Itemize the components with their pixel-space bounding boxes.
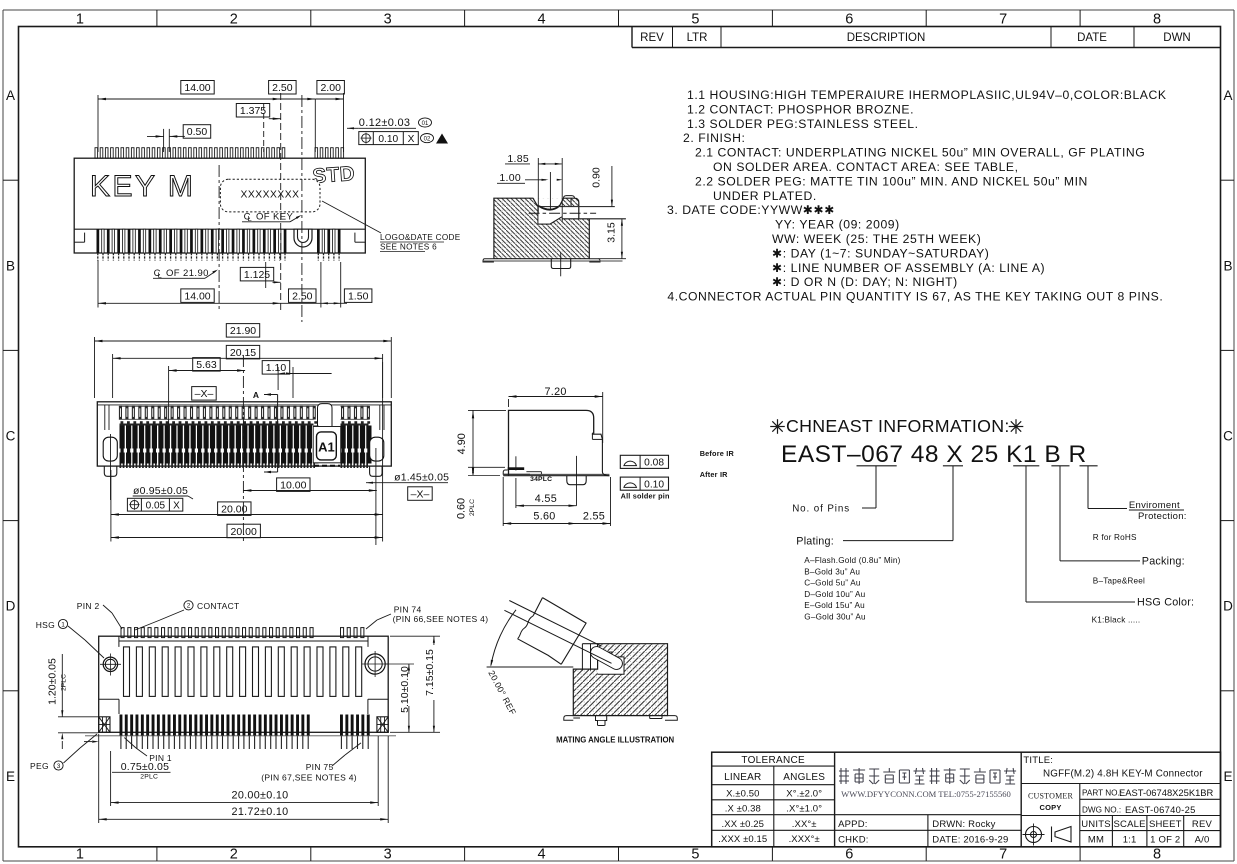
svg-text:1.85: 1.85	[507, 153, 529, 165]
illustration center peg	[596, 716, 607, 726]
34PLC ledge	[526, 471, 541, 473]
svg-text:D–Gold 10u” Au: D–Gold 10u” Au	[804, 590, 865, 599]
svg-text:XXXXXXXX: XXXXXXXX	[241, 189, 300, 200]
svg-text:0.90: 0.90	[591, 167, 603, 188]
svg-text:A: A	[1223, 88, 1232, 103]
svg-text:OF 21.90: OF 21.90	[166, 268, 209, 279]
svg-text:MATING ANGLE ILLUSTRATION: MATING ANGLE ILLUSTRATION	[556, 735, 674, 744]
svg-text:YY: YEAR (09: 2009): YY: YEAR (09: 2009)	[775, 218, 900, 232]
svg-text:0.08: 0.08	[644, 458, 664, 469]
peg blocks hatched	[99, 717, 110, 733]
svg-text:4.90: 4.90	[456, 433, 468, 454]
svg-text:1.10: 1.10	[266, 362, 287, 374]
svg-text:A1: A1	[318, 440, 335, 455]
svg-text:PEG: PEG	[30, 761, 49, 771]
svg-text:PIN 2: PIN 2	[77, 601, 100, 611]
svg-text:R for RoHS: R for RoHS	[1093, 533, 1137, 542]
svg-text:NGFF(M.2) 4.8H KEY-M Connec: NGFF(M.2) 4.8H KEY-M Connector	[1043, 769, 1203, 780]
svg-text:6: 6	[845, 11, 853, 27]
svg-text:4.CONNECTOR ACTUAL PIN QUAN: 4.CONNECTOR ACTUAL PIN QUANTITY IS 67, A…	[667, 290, 1163, 304]
illustration slot walls	[581, 644, 583, 671]
svg-text:02: 02	[424, 137, 431, 143]
svg-text:PIN 74: PIN 74	[394, 605, 422, 615]
svg-text:A: A	[253, 390, 259, 400]
svg-text:LTR: LTR	[687, 32, 708, 44]
-X- datum right	[408, 487, 433, 501]
dim 14.00 top	[97, 95, 99, 152]
svg-text:X.±0.50: X.±0.50	[726, 788, 759, 799]
illustration module body	[543, 598, 587, 665]
illustration pocket white	[598, 652, 624, 674]
svg-text:EAST-06740-25: EAST-06740-25	[1125, 804, 1196, 815]
dim 1.10	[277, 367, 279, 390]
bottom view lower pins	[120, 715, 123, 737]
bottom view body	[99, 636, 389, 732]
dim 2.00 top	[343, 93, 345, 152]
revision table header	[631, 27, 633, 48]
svg-text:CHNEAST INFORMATION:: CHNEAST INFORMATION:	[786, 416, 1010, 436]
svg-text:.XX ±0.25: .XX ±0.25	[722, 819, 765, 830]
svg-text:2PLC: 2PLC	[140, 774, 158, 781]
key tab in pin row	[318, 404, 333, 427]
svg-text:DATE: 2016-9-29: DATE: 2016-9-29	[932, 835, 1008, 846]
svg-text:0.10: 0.10	[644, 479, 664, 490]
svg-text:2.00: 2.00	[320, 82, 341, 94]
dim 0.75	[98, 734, 100, 789]
dim 21.90	[94, 337, 96, 398]
svg-text:C: C	[1223, 429, 1233, 444]
projection symbols	[1026, 827, 1042, 843]
svg-text:.XXX ±0.15: .XXX ±0.15	[718, 834, 767, 845]
svg-text:B: B	[1223, 258, 1232, 273]
svg-text:10.00: 10.00	[280, 479, 306, 491]
svg-text:LINEAR: LINEAR	[724, 772, 761, 783]
dim 20.00+-0.10	[110, 789, 112, 806]
leader environment	[1087, 466, 1089, 509]
part number heading	[770, 426, 785, 428]
illustration card pcb lines	[504, 610, 611, 663]
svg-text:5.60: 5.60	[533, 511, 555, 523]
svg-text:DESCRIPTION: DESCRIPTION	[847, 32, 926, 44]
svg-text:20.15: 20.15	[230, 347, 256, 359]
front view corner notches	[84, 233, 86, 243]
svg-text:ø0.95±0.05: ø0.95±0.05	[133, 485, 188, 497]
leader HSG color	[1025, 466, 1027, 602]
svg-text:0.05: 0.05	[146, 501, 166, 512]
svg-text:D: D	[6, 599, 16, 614]
svg-text:X: X	[173, 501, 180, 512]
svg-text:7: 7	[999, 11, 1007, 27]
feature control frame 0.10 X	[359, 132, 419, 145]
svg-text:20.00±0.10: 20.00±0.10	[232, 790, 289, 802]
svg-text:0.60: 0.60	[455, 498, 467, 519]
svg-text:1: 1	[76, 847, 84, 863]
long thin line	[85, 735, 396, 737]
svg-text:WWW.DFYYCONN.COM TEL:0755-2715: WWW.DFYYCONN.COM TEL:0755-27155560	[841, 789, 1011, 799]
svg-text:E: E	[6, 769, 15, 784]
svg-text:DATE: DATE	[1077, 32, 1107, 44]
svg-text:APPD:: APPD:	[838, 819, 868, 830]
section centerline	[529, 212, 597, 214]
svg-text:HSG: HSG	[36, 620, 55, 630]
svg-text:COPY: COPY	[1039, 803, 1061, 812]
svg-text:2.1 CONTACT: UNDERPLATING N: 2.1 CONTACT: UNDERPLATING NICKEL 50u” MI…	[695, 146, 1145, 160]
zone labels	[156, 10, 158, 27]
svg-text:3: 3	[384, 847, 392, 863]
svg-text:Enviroment: Enviroment	[1129, 500, 1180, 511]
svg-text:1.125: 1.125	[244, 269, 270, 281]
svg-text:0.50: 0.50	[187, 126, 208, 138]
left hole	[103, 657, 117, 671]
svg-text:1.375: 1.375	[240, 105, 266, 117]
svg-text:DRWN: Rocky: DRWN: Rocky	[932, 819, 995, 830]
svg-text:0.10: 0.10	[378, 134, 398, 145]
svg-text:K1:Black .....: K1:Black .....	[1092, 616, 1141, 625]
company name hanzi	[839, 768, 849, 784]
svg-text:MM: MM	[1088, 835, 1104, 846]
svg-text:DWG NO.:: DWG NO.:	[1082, 806, 1121, 815]
svg-text:PIN 75: PIN 75	[306, 762, 334, 772]
mounting slots	[103, 437, 117, 461]
illustration card tip	[597, 653, 617, 664]
contact element in tab	[570, 199, 572, 207]
svg-text:LOGO&DATE CODE: LOGO&DATE CODE	[380, 233, 461, 242]
svg-text:SHEET: SHEET	[1149, 819, 1182, 830]
svg-text:.XXX°±: .XXX°±	[789, 834, 820, 845]
front view top pin row	[95, 148, 98, 159]
notch cut white	[533, 198, 564, 209]
svg-text:3: 3	[57, 763, 61, 770]
svg-text:ON SOLDER AREA. CONTACT AR: ON SOLDER AREA. CONTACT AREA: SEE TABLE,	[713, 160, 1019, 174]
section view hatched body	[494, 198, 589, 259]
svg-text:TITLE:: TITLE:	[1023, 755, 1053, 766]
svg-text:Before IR: Before IR	[700, 449, 735, 458]
svg-text:4.55: 4.55	[535, 493, 557, 505]
centerline X datum	[242, 355, 244, 542]
svg-text:2.50: 2.50	[292, 290, 313, 302]
svg-text:E–Gold 15u” Au: E–Gold 15u” Au	[804, 601, 865, 610]
top view pin rails	[119, 405, 314, 407]
svg-text:SEE NOTES 6: SEE NOTES 6	[380, 243, 437, 252]
svg-text:✱: LINE NUMBER OF ASSEMBLY: ✱: LINE NUMBER OF ASSEMBLY (A: LINE A)	[772, 261, 1045, 275]
svg-text:After IR: After IR	[700, 470, 728, 479]
svg-text:SCALE: SCALE	[1114, 819, 1146, 830]
svg-text:A–Flash.Gold (0.8u” Min): A–Flash.Gold (0.8u” Min)	[804, 556, 900, 565]
top view contact band	[120, 424, 314, 426]
svg-text:Protection:: Protection:	[1138, 511, 1187, 522]
dim 20.00 lower	[110, 519, 112, 542]
solder pin spec boxes	[620, 455, 668, 468]
svg-text:2. FINISH:: 2. FINISH:	[683, 131, 745, 145]
top view pin row upper	[119, 406, 122, 420]
logo&date leader	[322, 201, 381, 233]
dim 14.00 bottom	[97, 260, 99, 308]
svg-text:CUSTOMER: CUSTOMER	[1028, 792, 1073, 801]
svg-text:EAST–067 48 X 25 K1 B R: EAST–067 48 X 25 K1 B R	[781, 441, 1087, 468]
dim 20.15	[112, 354, 114, 398]
svg-text:CONTACT: CONTACT	[197, 601, 240, 611]
svg-text:3: 3	[384, 11, 392, 27]
right hole	[365, 654, 385, 674]
svg-text:B–Gold 3u” Au: B–Gold 3u” Au	[804, 567, 860, 576]
svg-text:All solder pin: All solder pin	[621, 491, 670, 500]
svg-text:1.20±0.05: 1.20±0.05	[47, 658, 59, 705]
svg-text:D: D	[1223, 599, 1233, 614]
side view center peg	[567, 476, 586, 485]
dim 5.63	[168, 366, 170, 430]
feature frame 0.05 X	[127, 498, 182, 511]
svg-text:B: B	[6, 258, 15, 273]
svg-text:Plating:: Plating:	[796, 536, 834, 548]
svg-text:✱: D OR N (D: DAY; N: N: ✱: D OR N (D: DAY; N: NIGHT)	[772, 275, 958, 289]
svg-text:C–Gold 5u” Au: C–Gold 5u” Au	[804, 579, 861, 588]
side view outline	[509, 410, 594, 475]
svg-text:8: 8	[1153, 847, 1161, 863]
svg-text:8: 8	[1153, 11, 1161, 27]
svg-text:5.63: 5.63	[196, 359, 217, 371]
side view left solder foot	[508, 467, 525, 470]
svg-text:B–Tape&Reel: B–Tape&Reel	[1093, 577, 1145, 586]
svg-text:2PLC: 2PLC	[60, 674, 67, 691]
svg-text:X: X	[408, 134, 415, 145]
svg-text:6: 6	[845, 847, 853, 863]
svg-text:1.1 HOUSING:HIGH TEMPERAIURE: 1.1 HOUSING:HIGH TEMPERAIURE IHERMOPLASI…	[687, 88, 1167, 102]
svg-text:1.3 SOLDER PEG:STAINLESS ST: 1.3 SOLDER PEG:STAINLESS STEEL.	[687, 117, 919, 131]
front view housing body KEY M	[74, 158, 365, 253]
dim 1.125	[265, 262, 267, 288]
svg-text:C: C	[6, 429, 16, 444]
bottom view shoulder	[99, 698, 119, 700]
dim 2.50 top	[314, 99, 316, 152]
svg-text:✱: DAY (1~7: SUNDAY~SATURDA: ✱: DAY (1~7: SUNDAY~SATURDAY)	[772, 246, 989, 260]
top view feet below	[104, 466, 117, 476]
svg-text:21.72±0.10: 21.72±0.10	[232, 806, 289, 818]
svg-text:.X°±1.0°: .X°±1.0°	[786, 804, 822, 815]
svg-text:ANGLES: ANGLES	[783, 772, 825, 783]
dim 10.00	[243, 490, 376, 492]
svg-text:4: 4	[538, 847, 546, 863]
svg-text:E: E	[1223, 769, 1232, 784]
svg-text:5: 5	[691, 11, 699, 27]
svg-text:1: 1	[61, 621, 65, 628]
svg-text:No. of Pins: No. of Pins	[792, 504, 850, 515]
border frame	[3, 9, 1234, 11]
top view body	[97, 402, 391, 466]
svg-text:2PLC: 2PLC	[469, 499, 476, 516]
svg-text:1 OF 2: 1 OF 2	[1150, 835, 1180, 846]
front view bottom solder legs	[97, 229, 100, 253]
svg-text:1.50: 1.50	[348, 290, 369, 302]
svg-text:5: 5	[691, 847, 699, 863]
dim 1.375	[263, 104, 265, 152]
svg-text:01: 01	[422, 121, 429, 127]
hole centerlines	[110, 434, 112, 500]
svg-text:CHKD:: CHKD:	[838, 835, 869, 846]
svg-text:1.2 CONTACT: PHOSPHOR BROZN: 1.2 CONTACT: PHOSPHOR BROZNE.	[687, 102, 914, 116]
svg-text:1.00: 1.00	[499, 172, 521, 184]
svg-text:2.55: 2.55	[583, 511, 605, 523]
svg-text:14.00: 14.00	[184, 82, 210, 94]
bottom view top pins	[121, 628, 124, 638]
svg-text:UNITS: UNITS	[1081, 819, 1111, 830]
illustration angle arc	[491, 610, 516, 666]
dim 20.00 upper	[110, 470, 112, 519]
label contact	[184, 601, 193, 610]
svg-text:1:1: 1:1	[1123, 835, 1137, 846]
svg-text:KEY M: KEY M	[90, 170, 195, 203]
dim 2.55	[610, 477, 612, 526]
underlines	[857, 465, 897, 467]
svg-text:REV: REV	[1192, 819, 1213, 830]
illustration horizontal ref line	[487, 666, 574, 668]
leader no of pins	[875, 466, 877, 508]
svg-text:34PLC: 34PLC	[530, 476, 552, 483]
svg-text:14.00: 14.00	[184, 290, 210, 302]
svg-text:20.00: 20.00	[221, 503, 247, 515]
svg-text:–X–: –X–	[195, 388, 214, 400]
svg-text:–X–: –X–	[411, 488, 430, 500]
svg-text:Packing:: Packing:	[1142, 556, 1185, 568]
dim 2.50 bottom	[320, 262, 322, 308]
svg-text:2: 2	[187, 603, 191, 610]
svg-text:TOLERANCE: TOLERANCE	[741, 755, 805, 766]
dim 1.50 bottom	[340, 262, 342, 308]
svg-text:DWN: DWN	[1163, 32, 1190, 44]
svg-text:2: 2	[230, 847, 238, 863]
slot lines	[538, 206, 615, 208]
svg-text:1: 1	[76, 11, 84, 27]
svg-text:2.50: 2.50	[272, 82, 293, 94]
slot cut white	[538, 207, 615, 225]
svg-text:.XX°±: .XX°±	[792, 819, 817, 830]
illustration socket block hatched	[573, 644, 667, 716]
illustration feet	[564, 716, 574, 721]
dim 21.72+-0.10	[98, 789, 100, 823]
title block frame	[712, 752, 1221, 847]
svg-text:.X ±0.38: .X ±0.38	[725, 804, 761, 815]
dim 5.60	[502, 477, 504, 526]
svg-text:0.75±0.05: 0.75±0.05	[121, 761, 169, 773]
leader packing	[1059, 466, 1061, 561]
leader plating	[952, 466, 954, 541]
svg-text:WW: WEEK (25: THE 25TH WE: WW: WEEK (25: THE 25TH WEEK)	[772, 232, 981, 246]
section line A-A	[277, 395, 279, 473]
section bottom peg	[551, 259, 570, 269]
svg-text:REV: REV	[640, 32, 664, 44]
svg-text:OF KEY: OF KEY	[256, 212, 294, 223]
svg-text:3.15: 3.15	[606, 222, 618, 243]
dim 0.50	[163, 129, 165, 152]
bottom view comb fingers	[119, 640, 368, 642]
svg-text:X°.±2.0°: X°.±2.0°	[786, 788, 822, 799]
notch contact arc	[539, 206, 559, 210]
svg-text:ø1.45±0.05: ø1.45±0.05	[394, 472, 449, 484]
dashed logo box	[220, 179, 320, 212]
svg-text:7.15±0.15: 7.15±0.15	[424, 649, 436, 696]
svg-text:0.12±0.03: 0.12±0.03	[359, 117, 411, 129]
svg-text:PART NO.:: PART NO.:	[1082, 789, 1122, 798]
svg-text:HSG Color:: HSG Color:	[1137, 597, 1194, 609]
svg-text:4: 4	[538, 11, 546, 27]
side view bottom line	[503, 475, 609, 477]
svg-text:7: 7	[999, 847, 1007, 863]
dim 4.55	[515, 478, 517, 508]
svg-text:(PIN 67,SEE NOTES 4): (PIN 67,SEE NOTES 4)	[261, 773, 357, 783]
svg-text:21.90: 21.90	[230, 325, 256, 337]
svg-text:UNDER PLATED.: UNDER PLATED.	[713, 189, 817, 203]
-X- datum left	[192, 387, 217, 401]
svg-text:3. DATE CODE:YYWW✱✱✱: 3. DATE CODE:YYWW✱✱✱	[667, 203, 835, 217]
svg-text:EAST-06748X25K1BR: EAST-06748X25K1BR	[1119, 787, 1214, 798]
svg-text:20.00: 20.00	[231, 526, 257, 538]
svg-text:2.2 SOLDER PEG: MATTE TIN: 2.2 SOLDER PEG: MATTE TIN 100u” MIN. AND…	[695, 174, 1088, 188]
svg-text:A: A	[6, 88, 15, 103]
svg-text:A/0: A/0	[1195, 835, 1210, 846]
svg-text:2: 2	[230, 11, 238, 27]
svg-text:(PIN 66,SEE NOTES 4): (PIN 66,SEE NOTES 4)	[393, 614, 489, 624]
section feet	[483, 259, 494, 262]
svg-text:G–Gold 30u” Au: G–Gold 30u” Au	[804, 613, 866, 622]
centerline 21.90	[218, 165, 220, 310]
A1 pad label	[313, 427, 341, 463]
key U notch in legs	[294, 229, 312, 247]
key centerline	[301, 95, 303, 322]
